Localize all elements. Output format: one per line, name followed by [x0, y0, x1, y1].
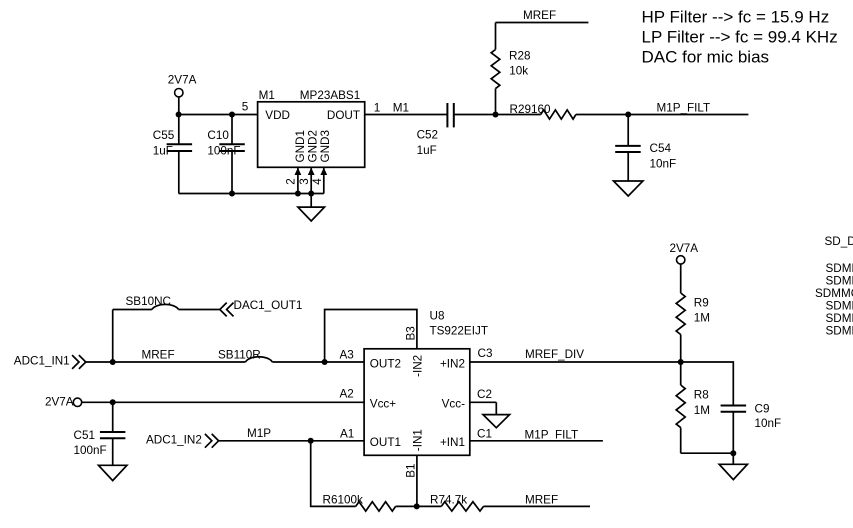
svg-text:C10: C10: [207, 129, 229, 142]
wire MREF_DIV: [470, 362, 734, 406]
svg-text:C54: C54: [650, 142, 672, 155]
svg-text:C52: C52: [417, 129, 438, 142]
svg-text:M1: M1: [259, 89, 275, 102]
pin 2 stem with arrow: [295, 168, 302, 194]
svg-text:SDMM: SDMM: [826, 274, 853, 287]
wire ADC1_IN1 to SB11: [86, 361, 246, 363]
wire SB10 to port: [179, 309, 220, 311]
svg-text:OUT1: OUT1: [370, 436, 401, 449]
resistor R28: [491, 23, 500, 115]
svg-text:A2: A2: [340, 388, 354, 401]
svg-text:SDMM: SDMM: [826, 299, 853, 312]
node junction R9 R8: [678, 359, 684, 365]
wire SB11 to A3: [272, 361, 364, 363]
node junction C10: [229, 112, 235, 118]
svg-text:10k: 10k: [509, 65, 528, 78]
label R8 1M: [694, 389, 710, 417]
svg-text:R29160: R29160: [510, 103, 551, 116]
resistor R74: [441, 502, 483, 511]
svg-text:LP Filter --> fc = 99.4 KHz: LP Filter --> fc = 99.4 KHz: [642, 28, 838, 47]
wire DOUT pin 1: [365, 114, 448, 116]
port ADC1_IN1: [72, 355, 86, 369]
svg-text:SD_DAT: SD_DAT: [825, 235, 853, 248]
svg-text:100nF: 100nF: [74, 444, 107, 457]
svg-text:1M: 1M: [694, 404, 710, 417]
svg-text:C1: C1: [477, 428, 492, 441]
wire M1P: [219, 440, 365, 442]
node junction C54: [625, 112, 631, 118]
svg-text:2V7A: 2V7A: [168, 74, 197, 87]
svg-text:DOUT: DOUT: [327, 109, 360, 122]
ground (under C9): [719, 453, 747, 479]
solder bridge SB11: [245, 357, 272, 362]
svg-text:C51: C51: [74, 429, 95, 442]
node junction M1P: [308, 438, 314, 444]
power 2V7A (A2 row): [73, 398, 112, 406]
capacitor C55: [167, 115, 193, 194]
svg-text:M1: M1: [393, 101, 409, 114]
svg-text:SB110R: SB110R: [218, 348, 261, 361]
svg-text:M1P: M1P: [247, 427, 271, 440]
svg-text:C55: C55: [153, 129, 175, 142]
label C51 100nF: [74, 429, 107, 457]
svg-text:100nF: 100nF: [207, 144, 240, 157]
svg-text:R9: R9: [694, 297, 709, 310]
svg-text:C2: C2: [477, 388, 492, 401]
resistor R8: [676, 362, 685, 453]
svg-text:1: 1: [374, 101, 381, 114]
node junction gnd C9: [730, 450, 736, 456]
label R28 10k: [509, 50, 530, 78]
node junction C55: [176, 112, 182, 118]
svg-text:R6100k: R6100k: [323, 494, 363, 507]
wire feedback OUT2 to -IN2: [325, 310, 417, 363]
label C9 10nF: [755, 403, 782, 431]
svg-text:C9: C9: [755, 403, 770, 416]
wire M1P down to R61: [311, 441, 356, 507]
svg-text:10nF: 10nF: [650, 157, 677, 170]
svg-text:B3: B3: [404, 326, 417, 340]
wire MREF (bottom): [484, 505, 591, 507]
svg-text:DAC1_OUT1: DAC1_OUT1: [234, 299, 303, 312]
svg-text:B1: B1: [404, 464, 417, 478]
svg-text:R28: R28: [509, 50, 530, 63]
svg-text:3: 3: [298, 178, 311, 185]
node junction A3 feedback: [322, 359, 328, 365]
wire C52 to R28 node: [454, 114, 541, 116]
svg-text:U8: U8: [430, 309, 445, 322]
wire gnd bus bottom: [179, 193, 324, 195]
label R9 1M: [694, 297, 710, 325]
svg-text:SDMM: SDMM: [826, 262, 853, 275]
label C55 1uF: [153, 129, 175, 157]
svg-text:MREF: MREF: [142, 348, 175, 361]
svg-text:+IN2: +IN2: [440, 357, 465, 370]
capacitor C54: [615, 115, 641, 182]
svg-text:1M: 1M: [694, 312, 710, 325]
resistor R29: [541, 110, 576, 119]
svg-text:-IN2: -IN2: [412, 355, 425, 377]
svg-text:R74.7k: R74.7k: [430, 494, 467, 507]
microphone M1 MP23ABS1: [258, 102, 365, 168]
svg-text:SDMM: SDMM: [826, 324, 853, 337]
solder bridge SB10: [152, 304, 179, 309]
capacitor C52: [447, 103, 453, 127]
svg-text:OUT2: OUT2: [370, 357, 401, 370]
svg-text:MP23ABS1: MP23ABS1: [300, 89, 360, 102]
pin 3 stem with arrow: [308, 168, 315, 194]
port ADC1_IN2: [205, 434, 219, 448]
svg-text:MREF: MREF: [525, 494, 558, 507]
svg-text:A1: A1: [340, 428, 354, 441]
svg-text:-IN1: -IN1: [412, 429, 425, 451]
svg-text:5: 5: [242, 100, 249, 113]
wire MREF (top): [496, 22, 589, 24]
node junction C10 gnd: [229, 191, 235, 197]
svg-text:2V7A: 2V7A: [45, 395, 74, 408]
ground (Vcc- pin): [483, 402, 510, 427]
wire 2V7A to Vcc+: [113, 401, 364, 403]
svg-text:GND2: GND2: [307, 130, 320, 162]
node junction C51: [110, 399, 116, 405]
wire VDD rail: [179, 114, 258, 116]
node junction GND1: [295, 191, 301, 197]
svg-text:ADC1_IN1: ADC1_IN1: [14, 354, 70, 367]
svg-text:DAC for mic bias: DAC for mic bias: [642, 48, 770, 67]
ground (under C54): [614, 181, 643, 196]
wire R29 to C54 node: [576, 114, 628, 116]
node junction GND2: [308, 191, 314, 197]
svg-text:2V7A: 2V7A: [670, 242, 699, 255]
wire R61 to B1: [396, 505, 442, 507]
svg-text:GND3: GND3: [319, 130, 332, 162]
svg-text:HP Filter --> fc = 15.9 Hz: HP Filter --> fc = 15.9 Hz: [642, 8, 830, 27]
port DAC1_OUT1: [220, 303, 234, 317]
svg-text:M1P_FILT: M1P_FILT: [525, 428, 579, 441]
svg-text:4: 4: [311, 178, 324, 185]
op-amp U8 TS922EIJT: [364, 349, 470, 456]
svg-text:+IN1: +IN1: [440, 436, 465, 449]
pin 4 stem with arrow: [320, 168, 327, 194]
svg-text:SDMM: SDMM: [826, 312, 853, 325]
node junction B1: [414, 503, 420, 509]
wire M1P_FILT (top): [628, 114, 748, 116]
svg-text:M1P_FILT: M1P_FILT: [657, 102, 711, 115]
svg-text:SDMMC: SDMMC: [815, 287, 853, 300]
label C52 1uF: [417, 129, 438, 157]
svg-text:R8: R8: [694, 389, 709, 402]
svg-text:VDD: VDD: [265, 109, 290, 122]
svg-text:A3: A3: [340, 349, 354, 362]
capacitor C10: [219, 115, 245, 194]
wire R8 to C9 gnd: [681, 452, 734, 454]
svg-text:Vcc+: Vcc+: [370, 398, 396, 411]
svg-text:1uF: 1uF: [153, 144, 173, 157]
wire M1P_FILT (bottom): [470, 440, 603, 442]
svg-text:ADC1_IN2: ADC1_IN2: [146, 433, 202, 446]
svg-text:TS922EIJT: TS922EIJT: [430, 325, 488, 338]
svg-text:MREF: MREF: [523, 9, 556, 22]
svg-text:C3: C3: [478, 347, 493, 360]
node junction ADC1_IN1: [110, 359, 116, 365]
svg-text:MREF_DIV: MREF_DIV: [525, 348, 584, 361]
svg-text:2: 2: [284, 178, 297, 185]
wire C2 pin: [470, 401, 497, 403]
label C10 100nF: [207, 129, 240, 157]
power 2V7A (top): [175, 89, 183, 115]
node junction R28: [493, 112, 499, 118]
ground (under M1): [298, 194, 325, 222]
wire B1 stem: [416, 455, 418, 506]
annotation text: [642, 8, 838, 67]
capacitor C51: [100, 402, 126, 465]
svg-text:10nF: 10nF: [755, 417, 782, 430]
wire DAC1_OUT1 branch: [113, 310, 152, 363]
ground (under C51): [99, 465, 127, 480]
capacitor C9: [721, 406, 747, 454]
resistor R9: [676, 293, 685, 362]
svg-text:SB10NC: SB10NC: [126, 295, 171, 308]
svg-text:GND1: GND1: [294, 130, 307, 162]
svg-text:1uF: 1uF: [417, 144, 437, 157]
svg-text:Vcc-: Vcc-: [442, 398, 465, 411]
resistor R61: [356, 502, 396, 511]
label C54 10nF: [650, 142, 677, 170]
power 2V7A (R9): [677, 256, 685, 293]
